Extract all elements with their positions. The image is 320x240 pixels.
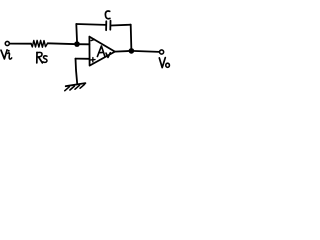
label Rs bbox=[37, 52, 47, 63]
wire feedback left vertical bbox=[75, 24, 78, 43]
wire resistor to inverting node bbox=[48, 42, 77, 45]
wire op-amp output to node bbox=[115, 50, 131, 53]
ground bar bbox=[66, 83, 86, 86]
capacitor C right plate bbox=[109, 21, 111, 30]
wire feedback top right bbox=[111, 24, 131, 27]
terminal Vo bbox=[160, 50, 164, 54]
op-amp U1 triangle bbox=[89, 37, 115, 66]
op-amp inverting pin minus bbox=[91, 39, 94, 40]
wire Vi terminal to resistor bbox=[10, 43, 31, 45]
ground hatch strokes bbox=[65, 84, 85, 90]
resistor Rs bbox=[31, 40, 48, 47]
label Vi bbox=[1, 50, 12, 59]
label C bbox=[105, 11, 110, 19]
wire op-amp plus input stub bbox=[76, 58, 90, 60]
terminal Vi bbox=[5, 41, 9, 45]
capacitor C left plate bbox=[105, 21, 107, 30]
node junction at inverting input bbox=[74, 41, 80, 47]
label Av bbox=[97, 46, 110, 57]
node junction at output bbox=[129, 48, 135, 54]
label Vo bbox=[159, 58, 169, 68]
wire feedback top left bbox=[76, 23, 105, 26]
wire feedback right vertical bbox=[130, 25, 133, 51]
wire node to op-amp inverting input bbox=[77, 43, 89, 45]
op-amp non-inverting pin plus bbox=[91, 58, 95, 62]
wire ground stem bbox=[76, 59, 78, 84]
wire node to Vo terminal bbox=[131, 51, 159, 52]
